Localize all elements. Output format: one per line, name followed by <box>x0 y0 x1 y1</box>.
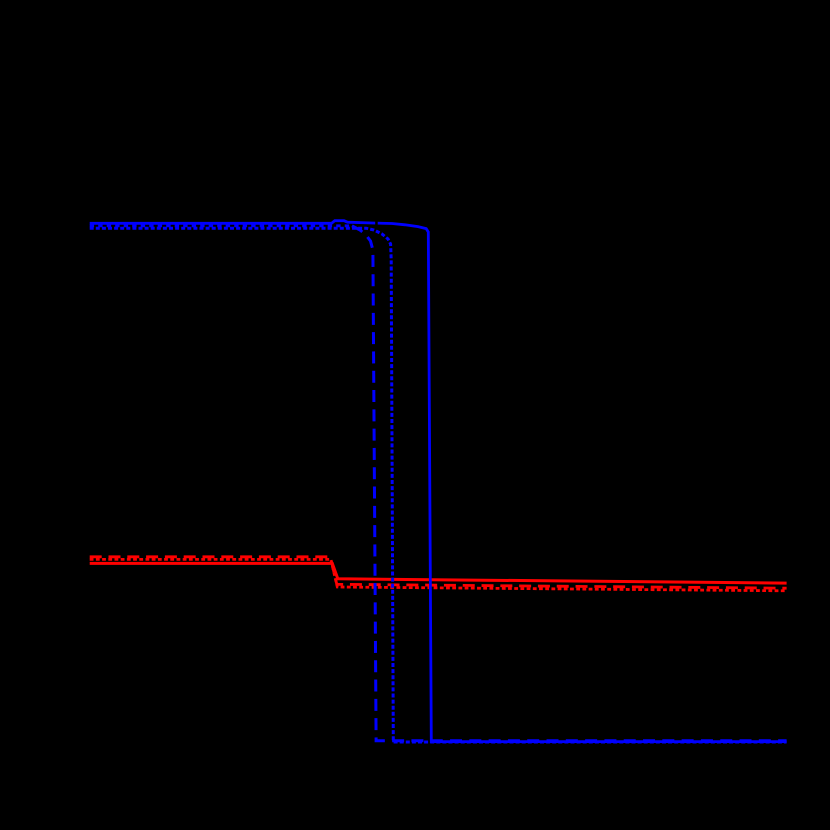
red solid curve (size, lty=1) <box>90 563 787 583</box>
small black gap in top blue line <box>375 218 378 227</box>
blue solid curve (power, lty=1) <box>90 221 787 742</box>
blue dashed curve horizontal segment (power, lty=2) <box>90 224 352 227</box>
blue dashed curve descending segment (power, lty=2) <box>352 226 787 741</box>
red dotted curve (size, lty=3) <box>90 559 787 590</box>
blue dotted curve (power, lty=3) <box>90 228 787 742</box>
red dashed curve (size, lty=2) <box>90 557 787 588</box>
